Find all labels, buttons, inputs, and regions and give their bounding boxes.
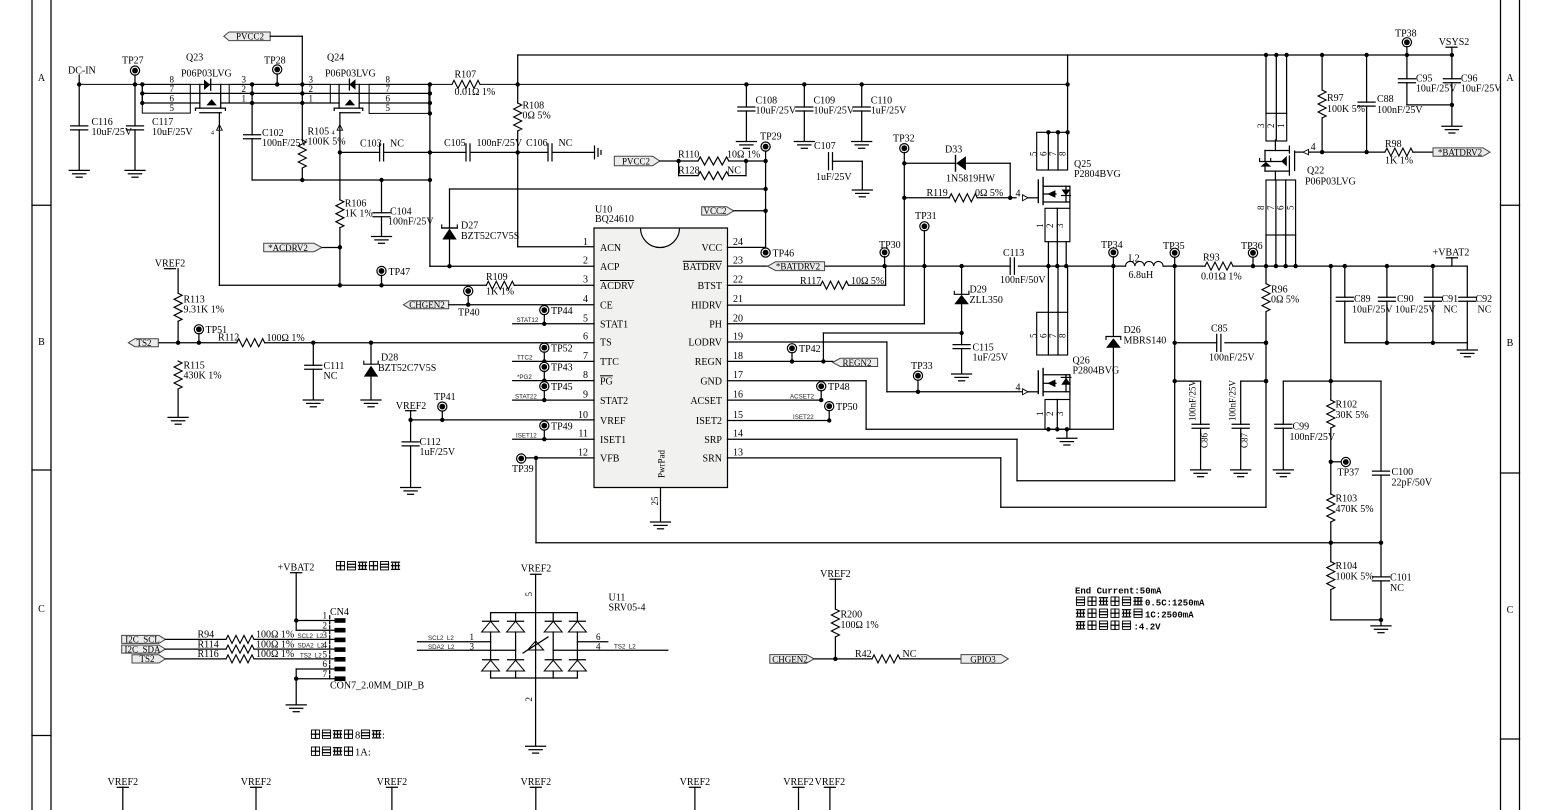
node +VBAT2 at CN4 bbox=[278, 563, 315, 631]
svg-text:TP32: TP32 bbox=[893, 134, 915, 145]
svg-text:5: 5 bbox=[524, 592, 534, 597]
svg-text:8: 8 bbox=[1256, 205, 1266, 210]
svg-text:1uF/25V: 1uF/25V bbox=[973, 353, 1009, 364]
svg-text:C85: C85 bbox=[1211, 324, 1228, 335]
pin 4 gate arrow Q25 bbox=[1016, 188, 1039, 201]
svg-text:VREF: VREF bbox=[600, 416, 626, 427]
svg-text:TP29: TP29 bbox=[760, 132, 782, 143]
svg-text:Q23: Q23 bbox=[186, 53, 203, 64]
junction R108 top of C105 line bbox=[516, 150, 520, 154]
svg-text:100K 5%: 100K 5% bbox=[1336, 571, 1374, 582]
svg-text:TP47: TP47 bbox=[389, 267, 411, 278]
wire VCC pin24 bbox=[728, 246, 766, 248]
svg-text:R110: R110 bbox=[678, 149, 699, 160]
node VREF2 stub 7 bbox=[815, 777, 846, 810]
junction D27 anode on ACP wire bbox=[447, 264, 451, 268]
capacitor C104 100nF/25V bbox=[373, 180, 434, 236]
svg-text:BTST: BTST bbox=[698, 281, 722, 292]
pin 7 TTC bbox=[583, 351, 619, 368]
wire U11 pin6 bbox=[577, 641, 607, 643]
svg-text:D26: D26 bbox=[1124, 325, 1141, 336]
svg-text:C: C bbox=[38, 604, 45, 615]
wire VFB vertical bbox=[535, 458, 537, 543]
ground under C109 bbox=[794, 142, 814, 149]
svg-text:TP48: TP48 bbox=[828, 382, 850, 393]
ground under C107 bbox=[852, 190, 872, 197]
junctions R106 column bbox=[338, 150, 342, 287]
svg-text:ZLL350: ZLL350 bbox=[970, 295, 1003, 306]
capacitor C89 10uF/25V bbox=[1336, 266, 1393, 343]
svg-text:9.31K 1%: 9.31K 1% bbox=[184, 304, 225, 315]
capacitor C95 10uF/25V bbox=[1398, 55, 1457, 105]
svg-text:100nF/25V: 100nF/25V bbox=[1290, 432, 1336, 443]
svg-text:1A:: 1A: bbox=[355, 748, 371, 759]
svg-text:SRP: SRP bbox=[704, 435, 722, 446]
svg-text:PwrPad: PwrPad bbox=[657, 449, 667, 478]
svg-text:R97: R97 bbox=[1327, 93, 1344, 104]
svg-text:R102: R102 bbox=[1336, 399, 1358, 410]
wire SCL row bbox=[165, 638, 334, 640]
junctions VBAT bus bbox=[1264, 264, 1435, 268]
svg-text:TP44: TP44 bbox=[551, 306, 573, 317]
svg-text:2: 2 bbox=[1045, 412, 1055, 417]
svg-text:TP42: TP42 bbox=[799, 344, 821, 355]
resistor R97 100K 5% bbox=[1318, 53, 1365, 155]
svg-text:100Ω 1%: 100Ω 1% bbox=[267, 333, 305, 344]
svg-text:A: A bbox=[1506, 73, 1514, 84]
svg-text:8: 8 bbox=[583, 370, 588, 381]
svg-text:C89: C89 bbox=[1354, 294, 1371, 305]
svg-text:ISET22: ISET22 bbox=[793, 414, 814, 421]
svg-text:100Ω 1%: 100Ω 1% bbox=[256, 649, 294, 660]
svg-text:STAT22: STAT22 bbox=[515, 393, 537, 400]
junctions PVCC2 column bbox=[300, 82, 304, 182]
svg-text:*BATDRV2: *BATDRV2 bbox=[776, 262, 820, 272]
svg-text:R117: R117 bbox=[800, 276, 821, 287]
junctions Q26 source rail bbox=[1046, 427, 1069, 431]
svg-text:1uF/25V: 1uF/25V bbox=[420, 447, 456, 458]
transistor Q22 P06P03LVG bbox=[1256, 113, 1356, 235]
svg-text:TP40: TP40 bbox=[458, 308, 480, 319]
junction DC-IN bbox=[77, 82, 81, 86]
svg-text:C100: C100 bbox=[1392, 467, 1414, 478]
testpoint TP35 bbox=[1163, 241, 1185, 268]
junction bus Q25 bbox=[1065, 82, 1069, 86]
svg-text:TS: TS bbox=[600, 338, 612, 349]
pin box Q23/Q24 pins 321 bbox=[229, 84, 330, 103]
wire STAT2 pin9 bbox=[513, 399, 594, 401]
svg-text:D29: D29 bbox=[970, 285, 987, 296]
svg-text:4: 4 bbox=[332, 131, 335, 137]
svg-text:R112: R112 bbox=[218, 332, 239, 343]
svg-text:End Current:50mA: End Current:50mA bbox=[1075, 587, 1162, 597]
svg-text:100Ω 1%: 100Ω 1% bbox=[841, 620, 879, 631]
svg-text:NC: NC bbox=[559, 138, 573, 149]
svg-text:TP41: TP41 bbox=[434, 392, 456, 403]
ground U11 bbox=[526, 746, 546, 753]
pin 5 STAT1 bbox=[583, 313, 628, 330]
diode D26 MBRS140 bbox=[1106, 266, 1166, 428]
wire U11 pin1 bbox=[418, 641, 491, 643]
junctions C86 C87 rail bbox=[1173, 379, 1269, 383]
svg-text:4: 4 bbox=[1311, 142, 1316, 153]
resistor R113 9.31K 1% bbox=[174, 269, 224, 343]
svg-text:3: 3 bbox=[1256, 123, 1266, 128]
svg-text:470K 5%: 470K 5% bbox=[1336, 504, 1374, 515]
svg-text:B: B bbox=[38, 337, 45, 348]
pin 18 REGN bbox=[695, 351, 743, 368]
net flag *ACDRV2 bbox=[264, 243, 340, 253]
svg-text:7: 7 bbox=[170, 84, 175, 94]
pin 12 VFB bbox=[578, 447, 620, 464]
wire U11 pin3 bbox=[418, 649, 516, 651]
svg-text:100nF/25V: 100nF/25V bbox=[1188, 379, 1198, 421]
svg-text:2: 2 bbox=[242, 84, 247, 94]
svg-text:6.8uH: 6.8uH bbox=[1129, 270, 1154, 281]
svg-text:0.5C:1250mA: 0.5C:1250mA bbox=[1145, 599, 1205, 609]
svg-text:ACSET: ACSET bbox=[690, 396, 722, 407]
svg-text:VREF2: VREF2 bbox=[815, 777, 846, 788]
node +VBAT2 bbox=[1433, 248, 1470, 267]
svg-text:7: 7 bbox=[583, 351, 588, 362]
svg-text:3: 3 bbox=[309, 74, 314, 84]
svg-text:VCC2: VCC2 bbox=[703, 206, 726, 216]
capacitor C99 100nF/25V bbox=[1275, 381, 1336, 469]
svg-text:TS2_L2: TS2_L2 bbox=[614, 644, 636, 651]
net flag TS2 bottom bbox=[132, 654, 165, 664]
svg-text:C105: C105 bbox=[444, 138, 466, 149]
junction R200 bottom bbox=[833, 657, 837, 661]
net flag REGN2 bbox=[833, 358, 878, 368]
svg-text:3: 3 bbox=[1055, 223, 1065, 228]
svg-text:14: 14 bbox=[733, 429, 743, 440]
capacitor C106 NC bbox=[526, 138, 573, 161]
transistor Q25 P2804BVG bbox=[1028, 130, 1120, 242]
svg-text:TS2: TS2 bbox=[136, 338, 151, 348]
svg-text:TTC2: TTC2 bbox=[517, 355, 533, 362]
svg-text:100nF/25V: 100nF/25V bbox=[388, 217, 434, 228]
svg-text:VREF2: VREF2 bbox=[521, 777, 552, 788]
testpoint TP31 bbox=[915, 211, 937, 324]
svg-text:7: 7 bbox=[1048, 333, 1058, 338]
wire SRN pin13 bbox=[728, 312, 1267, 507]
svg-text:TP46: TP46 bbox=[773, 248, 795, 259]
resistor R107 0.01ohm 1% bbox=[452, 70, 495, 99]
resistor R105 100K 5% bbox=[298, 126, 345, 168]
capacitor C102 100nF/25V bbox=[244, 84, 309, 180]
capacitor C109 10uF/25V bbox=[796, 82, 855, 141]
capacitor C113 100nF/50V inline bbox=[1000, 248, 1046, 286]
svg-text:STAT2: STAT2 bbox=[600, 396, 628, 407]
wire Q25 sources to PH bbox=[1048, 242, 1066, 267]
svg-text:13: 13 bbox=[733, 447, 743, 458]
ground Q26 sources bbox=[1057, 429, 1077, 445]
svg-text:TP28: TP28 bbox=[264, 56, 286, 67]
svg-text:BZT52C7V5S: BZT52C7V5S bbox=[461, 231, 519, 242]
capacitor C100 22pF/50V bbox=[1373, 381, 1433, 543]
wire PH pin20 bbox=[728, 323, 925, 325]
svg-text:19: 19 bbox=[733, 331, 743, 342]
svg-text:PVCC2: PVCC2 bbox=[622, 157, 650, 167]
testpoint TP47 bbox=[377, 266, 410, 287]
resistor R114 100ohm 1% bbox=[198, 639, 295, 653]
svg-text:CHGEN2: CHGEN2 bbox=[409, 300, 445, 310]
resistor R102 30K 5% bbox=[1327, 399, 1369, 494]
svg-text:8: 8 bbox=[1058, 151, 1068, 156]
pin 6 TS bbox=[583, 331, 612, 348]
svg-text:17: 17 bbox=[733, 370, 743, 381]
svg-text:C106: C106 bbox=[526, 138, 548, 149]
svg-text:VREF2: VREF2 bbox=[783, 777, 814, 788]
svg-text:430K 1%: 430K 1% bbox=[184, 370, 222, 381]
svg-text:NC: NC bbox=[1390, 583, 1404, 594]
testpoint TP33 bbox=[911, 361, 933, 394]
capacitor C87 100nF/25V bbox=[1228, 379, 1250, 469]
junctions R110 bbox=[676, 159, 767, 163]
wire input bus row8 y84.4 bbox=[79, 83, 452, 85]
svg-text:7: 7 bbox=[386, 84, 391, 94]
svg-text:0Ω 5%: 0Ω 5% bbox=[975, 188, 1003, 199]
svg-text:6: 6 bbox=[1038, 151, 1048, 156]
net flag CHGEN2 bbox=[403, 300, 594, 310]
node VSYS2 bbox=[1439, 37, 1470, 55]
testpoint TP37 bbox=[1329, 457, 1360, 478]
capacitor C85 100nF/25V bbox=[1173, 324, 1269, 364]
svg-text:10uF/25V: 10uF/25V bbox=[152, 127, 193, 138]
testpoint TP52 bbox=[540, 343, 573, 363]
svg-text:6: 6 bbox=[1276, 205, 1286, 210]
svg-text:C107: C107 bbox=[814, 141, 836, 152]
ground under C117 bbox=[125, 170, 145, 177]
junction D29/C115/REGN bbox=[959, 331, 963, 335]
resistor R96 0ohm 5% bbox=[1262, 266, 1299, 312]
wire STAT1 pin5 bbox=[513, 323, 594, 325]
resistor R103 470K 5% bbox=[1327, 493, 1374, 542]
svg-text:BATDRV: BATDRV bbox=[683, 262, 723, 273]
svg-text:C99: C99 bbox=[1293, 422, 1310, 433]
svg-text:+VBAT2: +VBAT2 bbox=[1433, 248, 1470, 259]
junction REGN riser bbox=[821, 359, 825, 363]
svg-text:10uF/25V: 10uF/25V bbox=[1461, 84, 1502, 95]
svg-text:C113: C113 bbox=[1003, 248, 1024, 259]
svg-text:ISET12: ISET12 bbox=[516, 432, 537, 439]
wire bus rows 7 and 6 bbox=[142, 84, 429, 103]
svg-text:D28: D28 bbox=[381, 353, 398, 364]
capacitor C88 100nF/25V bbox=[1358, 53, 1423, 155]
svg-text:ISET1: ISET1 bbox=[600, 435, 626, 446]
svg-text:2: 2 bbox=[1045, 224, 1055, 229]
capacitor C117 bbox=[127, 84, 194, 170]
svg-text:TP43: TP43 bbox=[551, 363, 573, 374]
resistor R117 10ohm 5% bbox=[800, 276, 884, 289]
capacitor C112 1uF/25V bbox=[402, 420, 456, 487]
svg-text:VREF2: VREF2 bbox=[108, 777, 139, 788]
svg-text:NC: NC bbox=[324, 371, 338, 382]
diode D33 1N5819HW bbox=[904, 144, 1010, 198]
svg-text:GND: GND bbox=[700, 376, 722, 387]
resistor R104 100K 5% bbox=[1327, 543, 1381, 620]
svg-text::: : bbox=[382, 731, 385, 742]
svg-text:16: 16 bbox=[733, 390, 743, 401]
ground under C112 bbox=[401, 488, 421, 495]
svg-text:*BATDRV2: *BATDRV2 bbox=[1438, 147, 1482, 157]
svg-text:PVCC2: PVCC2 bbox=[236, 32, 264, 42]
svg-text:CHGEN2: CHGEN2 bbox=[772, 654, 808, 664]
resistor R109 1K 1% bbox=[486, 272, 514, 298]
ground under C86 bbox=[1191, 470, 1211, 477]
svg-text:D27: D27 bbox=[461, 221, 478, 232]
svg-text:5: 5 bbox=[1028, 151, 1038, 156]
capacitor C103 NC bbox=[360, 139, 404, 161]
svg-text:1: 1 bbox=[323, 611, 328, 621]
svg-text:SDA2_L2: SDA2_L2 bbox=[428, 644, 455, 651]
resistor R128 NC parallel bbox=[679, 161, 746, 176]
svg-text:24: 24 bbox=[733, 237, 743, 248]
svg-text:3: 3 bbox=[1055, 411, 1065, 416]
junction row7 left bbox=[140, 82, 144, 105]
pin 20 PH bbox=[709, 313, 743, 330]
net flag GPIO3 bbox=[961, 654, 1008, 664]
capacitor C108 10uF/25V bbox=[738, 82, 797, 141]
wire D27 to VCC column y189 bbox=[450, 188, 766, 190]
svg-text:7: 7 bbox=[1048, 151, 1058, 156]
wire VFB divider rail bbox=[1283, 380, 1381, 382]
node VREF2 U11 bbox=[521, 564, 552, 613]
capacitor C116 bbox=[71, 84, 133, 170]
svg-text:6: 6 bbox=[596, 632, 601, 642]
svg-text:HIDRV: HIDRV bbox=[691, 300, 723, 311]
svg-text:CON7_2.0MM_DIP_B: CON7_2.0MM_DIP_B bbox=[330, 681, 425, 692]
svg-text:BZT52C7V5S: BZT52C7V5S bbox=[378, 363, 436, 374]
svg-text:R119: R119 bbox=[927, 188, 948, 199]
transistor Q26 P2804BVG bbox=[1028, 312, 1119, 429]
svg-text:0.01Ω 1%: 0.01Ω 1% bbox=[1201, 272, 1242, 283]
U10 pin stubs left bbox=[566, 246, 594, 248]
wire VREF pin10 bbox=[411, 419, 594, 421]
svg-text:10uF/25V: 10uF/25V bbox=[814, 106, 855, 117]
wire Q25 drain column from bus bbox=[1067, 55, 1069, 132]
node VREF2 stub 3 bbox=[377, 777, 408, 810]
ground under C108 bbox=[736, 142, 756, 149]
svg-text:1uF/25V: 1uF/25V bbox=[816, 172, 852, 183]
svg-text:VCC: VCC bbox=[701, 243, 722, 254]
ground under C99 bbox=[1273, 470, 1293, 477]
svg-text:C86: C86 bbox=[1200, 432, 1210, 448]
svg-text:1: 1 bbox=[470, 632, 475, 642]
svg-text:TP33: TP33 bbox=[911, 361, 933, 372]
svg-text:4: 4 bbox=[1016, 188, 1021, 199]
inductor L2 6.8uH bbox=[1126, 253, 1206, 281]
svg-text:Q24: Q24 bbox=[327, 53, 344, 64]
net flag PVCC2 top bbox=[224, 32, 302, 42]
svg-text:NC: NC bbox=[1444, 304, 1458, 315]
testpoint TP49 bbox=[540, 421, 573, 441]
svg-text:3: 3 bbox=[583, 275, 588, 286]
svg-text:3: 3 bbox=[470, 642, 475, 652]
ground battery caps bbox=[1457, 350, 1477, 357]
svg-text:STAT12: STAT12 bbox=[517, 317, 539, 324]
junctions x430 bbox=[428, 82, 432, 182]
pin 17 GND bbox=[700, 370, 743, 387]
wire VBAT to R102 bbox=[1329, 266, 1333, 400]
wire TS pin6 bbox=[158, 342, 236, 344]
wire LODRV pin19 to Q26 gate bbox=[728, 342, 1024, 392]
testpoint TP42 bbox=[787, 344, 820, 364]
svg-text:1: 1 bbox=[1035, 412, 1045, 417]
svg-text:LODRV: LODRV bbox=[688, 338, 722, 349]
svg-text:2: 2 bbox=[583, 256, 588, 267]
svg-text:12: 12 bbox=[578, 447, 588, 458]
resistor R200 100ohm 1% bbox=[831, 609, 878, 659]
wire REGN pin18 bbox=[728, 333, 962, 361]
wire HIDRV pin21 bbox=[728, 304, 905, 306]
svg-text:1N5819HW: 1N5819HW bbox=[946, 174, 995, 185]
svg-text:VREF2: VREF2 bbox=[377, 777, 408, 788]
testpoint TP38 bbox=[1395, 29, 1417, 58]
resistor R94 100ohm 1% bbox=[198, 630, 295, 644]
net flag *BATDRV2 right bbox=[1433, 147, 1490, 157]
capacitor C91 NC bbox=[1424, 266, 1458, 343]
svg-text:100nF/50V: 100nF/50V bbox=[1000, 275, 1046, 286]
capacitor C96 10uF/25V bbox=[1443, 53, 1502, 126]
svg-text:R200: R200 bbox=[841, 609, 863, 620]
node VREF2 R113 bbox=[155, 259, 186, 294]
svg-text:+VBAT2: +VBAT2 bbox=[278, 563, 315, 574]
wire C103/C105/C106 line y152.4 bbox=[340, 151, 595, 153]
svg-text:R107: R107 bbox=[455, 70, 477, 81]
resistor R108 0ohm 5% vertical bbox=[514, 84, 551, 246]
svg-text:NC: NC bbox=[390, 139, 404, 150]
svg-text:TP31: TP31 bbox=[915, 211, 937, 222]
svg-text:ISET2: ISET2 bbox=[696, 416, 722, 427]
svg-text:P2804BVG: P2804BVG bbox=[1073, 366, 1120, 377]
wire ACSET pin16 bbox=[728, 399, 822, 401]
wire CN4 pin6 pin7 ground bbox=[294, 669, 335, 704]
annotation End Current text bbox=[1075, 587, 1205, 633]
wire ACP vertical x430 bbox=[430, 84, 594, 266]
wire VFB pin12 bbox=[521, 457, 594, 459]
testpoint TP40 bbox=[458, 286, 480, 318]
wire battery caps bottom rail bbox=[1345, 343, 1468, 350]
wire PVCC2 vertical with R105 bbox=[301, 36, 303, 180]
svg-text:1K 1%: 1K 1% bbox=[486, 287, 514, 298]
pin 14 SRP bbox=[704, 429, 743, 446]
svg-text:C91: C91 bbox=[1442, 294, 1459, 305]
svg-text:0.01Ω 1%: 0.01Ω 1% bbox=[455, 87, 496, 98]
svg-text:2: 2 bbox=[309, 84, 314, 94]
svg-text:18: 18 bbox=[733, 351, 743, 362]
junction D33 left bbox=[902, 161, 906, 165]
svg-text:R104: R104 bbox=[1336, 561, 1358, 572]
svg-text:TP52: TP52 bbox=[551, 344, 573, 355]
junction R113 bottom bbox=[176, 341, 180, 345]
wire C95-C96 join bbox=[1407, 103, 1454, 107]
testpoint TP41 bbox=[434, 392, 456, 422]
svg-text:8: 8 bbox=[386, 74, 391, 84]
svg-text:I2C_SCL: I2C_SCL bbox=[125, 635, 160, 645]
svg-text:10uF/25V: 10uF/25V bbox=[92, 127, 133, 138]
testpoint TP36 bbox=[1241, 241, 1263, 268]
wire BTST pin22 bbox=[728, 266, 886, 285]
svg-text:15: 15 bbox=[733, 410, 743, 421]
junction C102 top bbox=[250, 82, 254, 105]
svg-text:Q22: Q22 bbox=[1307, 166, 1324, 177]
svg-text:TP39: TP39 bbox=[512, 464, 534, 475]
svg-text:B: B bbox=[1507, 338, 1514, 349]
junctions caps bottom rail bbox=[1385, 341, 1435, 345]
svg-text:MBRS140: MBRS140 bbox=[1124, 335, 1167, 346]
wire PH node line y266.4 bbox=[728, 265, 1011, 267]
